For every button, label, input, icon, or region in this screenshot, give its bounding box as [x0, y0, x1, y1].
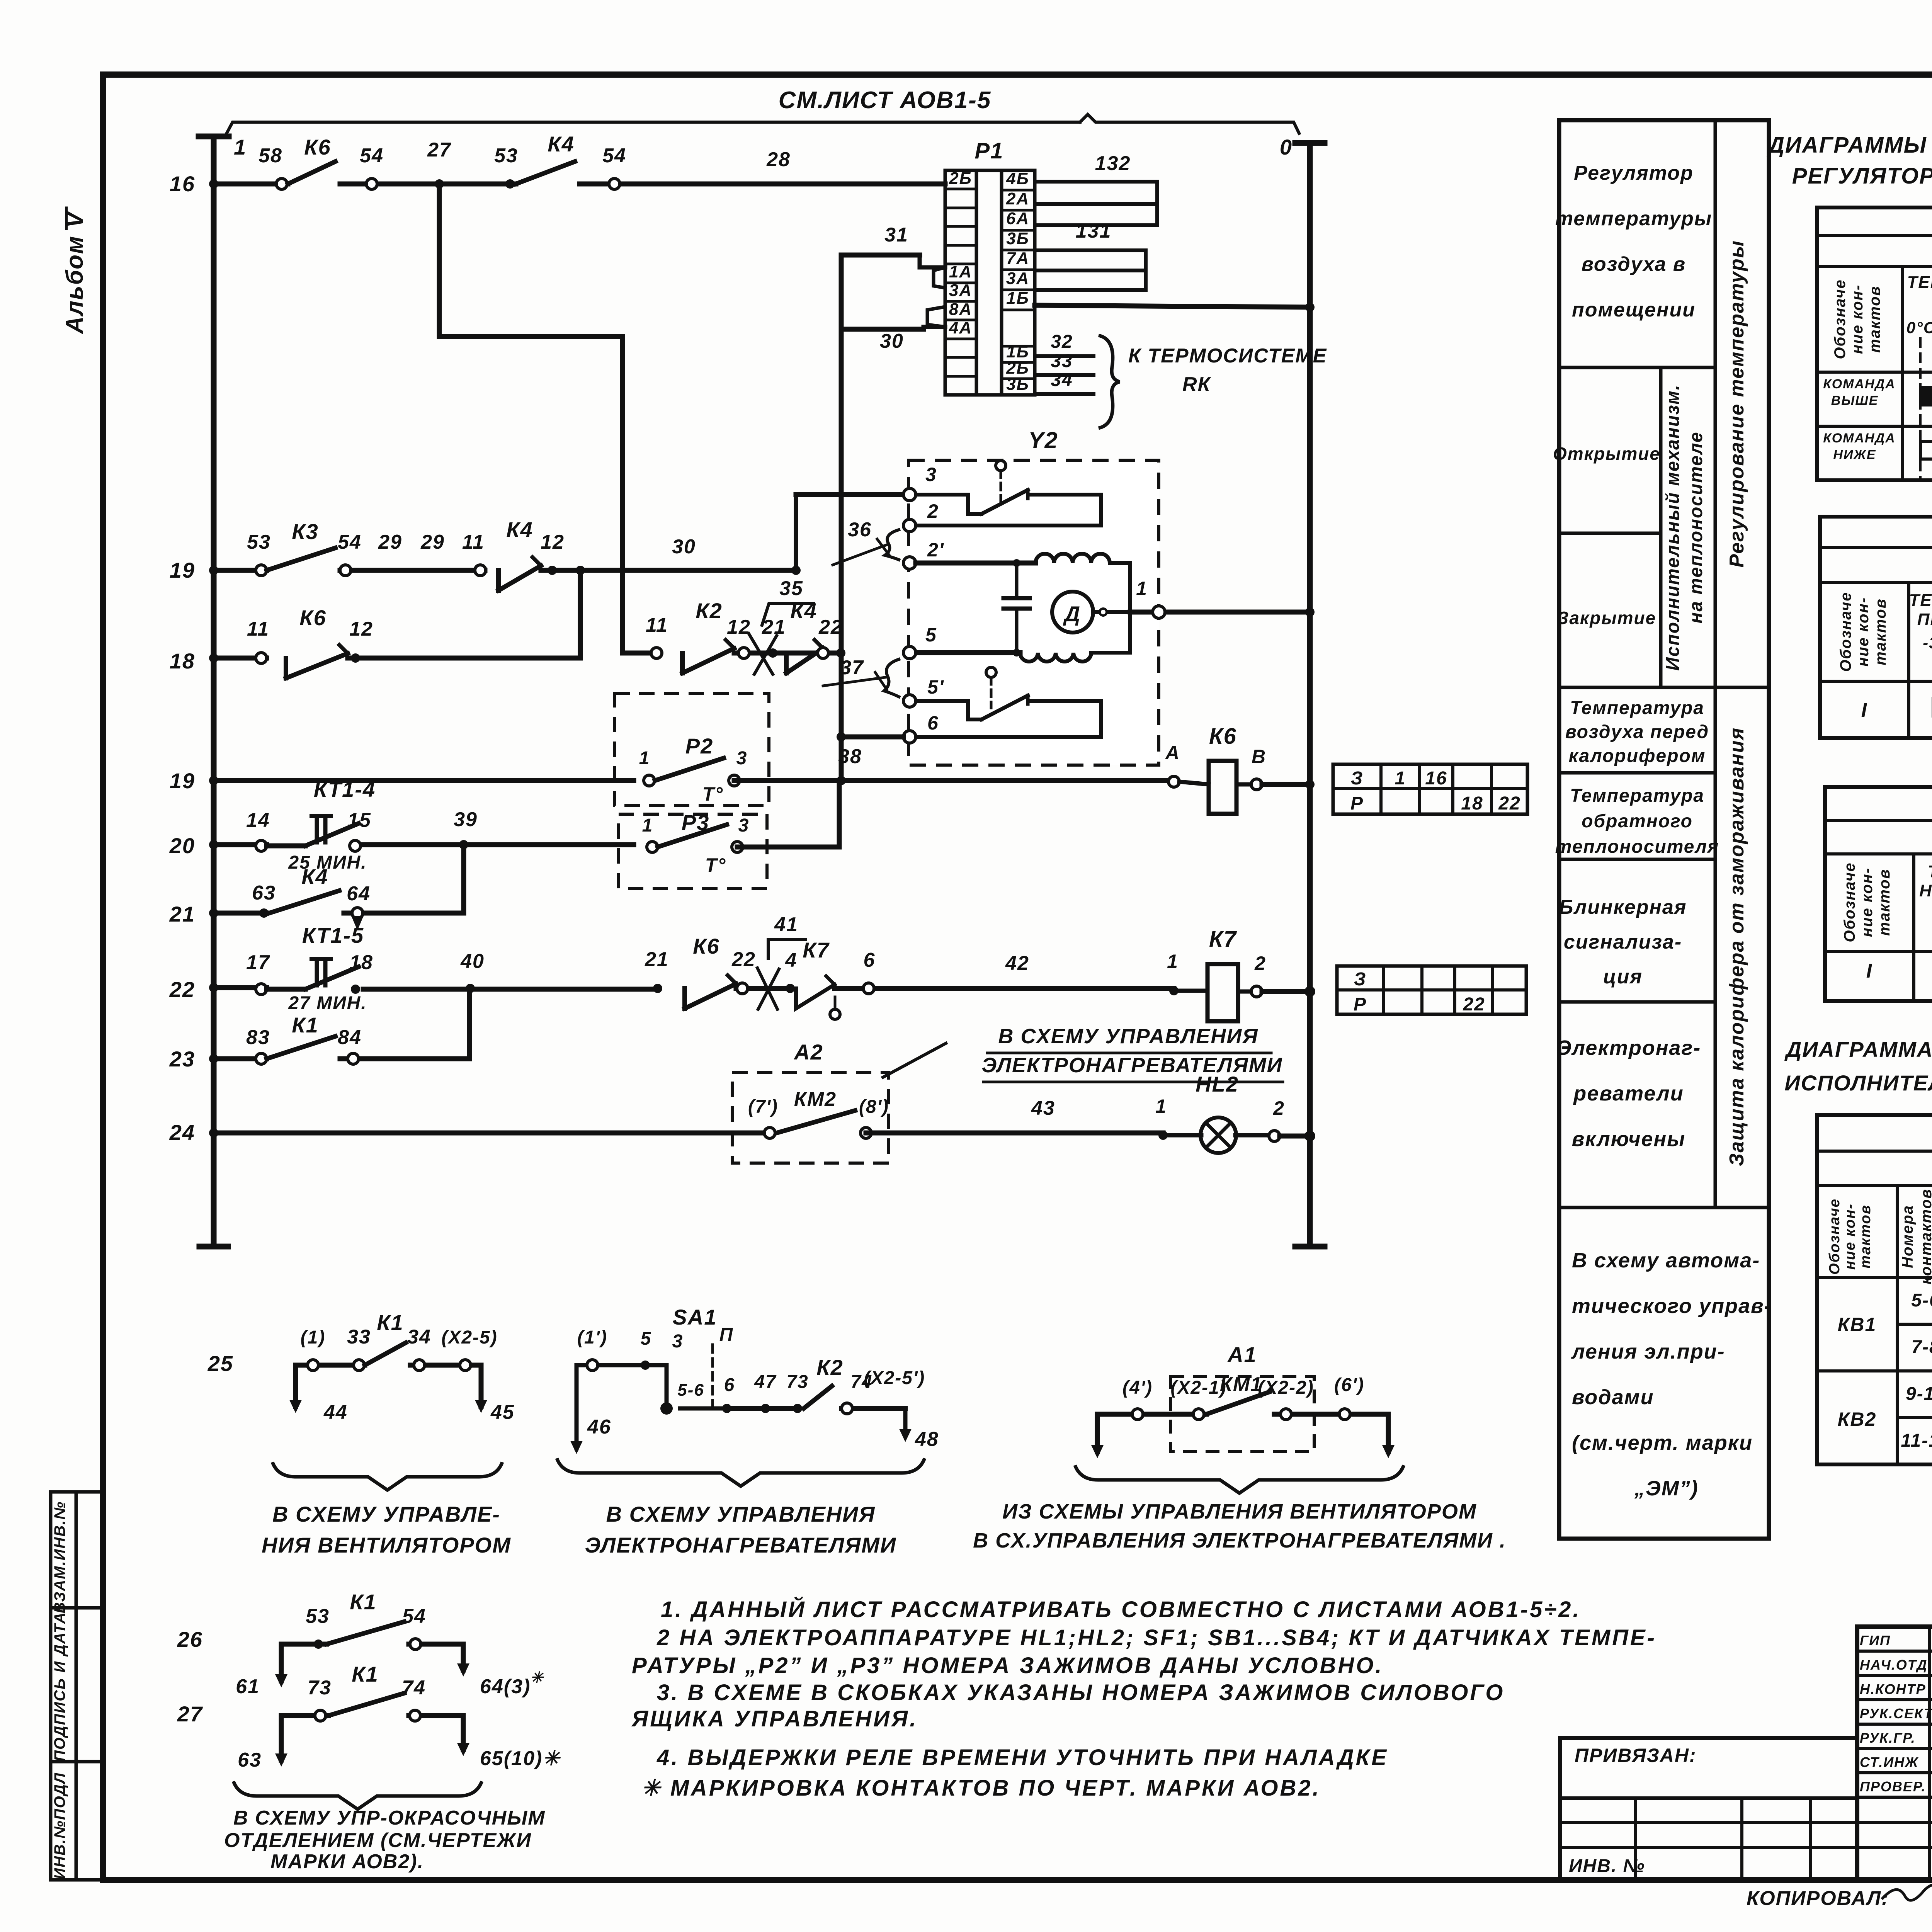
Y2 terminal 1 — [1130, 610, 1310, 615]
svg-text:3. В СХЕМЕ В СКОБКАХ УКАЗАН: 3. В СХЕМЕ В СКОБКАХ УКАЗАНЫ НОМЕРА ЗАЖИ… — [657, 1680, 1505, 1705]
contact K3 53-54 — [256, 565, 267, 576]
svg-text:КМ2: КМ2 — [794, 1088, 837, 1111]
svg-text:48: 48 — [915, 1428, 939, 1451]
svg-text:(6'): (6') — [1334, 1375, 1364, 1395]
svg-text:теплоносителя: теплоносителя — [1555, 837, 1719, 857]
svg-text:МАРКИ АОВ2).: МАРКИ АОВ2). — [270, 1850, 424, 1873]
svg-text:П: П — [719, 1325, 734, 1345]
svg-text:1Б: 1Б — [1006, 289, 1029, 308]
svg-text:ВЫШЕ: ВЫШЕ — [1831, 393, 1879, 408]
svg-text:27 МИН.: 27 МИН. — [288, 993, 367, 1014]
svg-text:Т°: Т° — [705, 854, 726, 876]
svg-text:22: 22 — [818, 616, 843, 638]
svg-text:К ТЕРМОСИСТЕМЕ: К ТЕРМОСИСТЕМЕ — [1128, 345, 1327, 367]
svg-text:33: 33 — [347, 1326, 371, 1348]
svg-text:54: 54 — [402, 1605, 426, 1628]
contact P3 1-3 — [647, 842, 658, 852]
contact KM2 — [764, 1128, 775, 1138]
Y2 terminal 3 — [796, 492, 910, 497]
node 27 junction — [435, 179, 444, 189]
Y2 terminal 2p — [903, 557, 916, 569]
svg-text:ления эл.при-: ления эл.при- — [1571, 1340, 1725, 1363]
time contact KT1-4 14-15 — [256, 840, 267, 851]
svg-text:КВ2: КВ2 — [1838, 1408, 1877, 1430]
svg-text:7-8: 7-8 — [1911, 1337, 1932, 1357]
svg-text:27: 27 — [427, 139, 451, 161]
svg-text:К4: К4 — [790, 599, 817, 623]
svg-text:1: 1 — [1395, 768, 1406, 789]
Y2 motor circuit top winding — [916, 561, 1036, 566]
svg-text:83: 83 — [246, 1026, 270, 1049]
svg-text:16: 16 — [1425, 768, 1447, 789]
svg-text:Температура: Температура — [1570, 786, 1704, 806]
svg-text:К6: К6 — [304, 135, 331, 159]
svg-text:47: 47 — [754, 1372, 777, 1392]
svg-text:40: 40 — [460, 950, 485, 973]
svg-text:контактов: контактов — [1918, 1189, 1932, 1285]
P1 thermo stubs 32 33 34 — [1035, 354, 1094, 358]
svg-text:SA1: SA1 — [673, 1305, 717, 1329]
svg-text:К1: К1 — [350, 1590, 377, 1614]
svg-text:К7: К7 — [1209, 927, 1237, 952]
svg-text:Регулирование температуры: Регулирование температуры — [1726, 240, 1748, 568]
wire riser to row18 contact K2 branch — [620, 337, 625, 653]
contact K4 21-22 break — [768, 648, 777, 658]
wire marking table at K7 — [1337, 966, 1526, 1014]
svg-text:18: 18 — [1461, 793, 1483, 814]
svg-text:20: 20 — [169, 833, 195, 858]
svg-text:З: З — [1351, 768, 1364, 789]
diagram table P1 TE2P3 — [1817, 207, 1932, 480]
svg-text:обратного: обратного — [1582, 811, 1693, 832]
svg-text:(1'): (1') — [577, 1327, 607, 1348]
svg-text:11-12: 11-12 — [1901, 1430, 1932, 1451]
wire 28 to P1 — [580, 182, 945, 187]
P1 left hooks — [934, 267, 945, 288]
svg-text:3Б: 3Б — [1006, 375, 1029, 394]
svg-text:4А: 4А — [949, 318, 972, 337]
svg-text:3А: 3А — [949, 281, 972, 300]
svg-text:ние кон-: ние кон- — [1855, 597, 1872, 667]
svg-text:водами: водами — [1572, 1386, 1654, 1409]
svg-text:НИЯ ВЕНТИЛЯТОРОМ: НИЯ ВЕНТИЛЯТОРОМ — [262, 1533, 511, 1557]
svg-text:тактов: тактов — [1876, 869, 1893, 936]
svg-text:27: 27 — [177, 1702, 203, 1726]
svg-text:18: 18 — [170, 649, 195, 673]
linkage 37 — [884, 659, 900, 697]
svg-text:тактов: тактов — [1857, 1204, 1874, 1269]
svg-text:Температура: Температура — [1570, 698, 1704, 718]
svg-text:В СХ.УПРАВЛЕНИЯ ЭЛЕКТРОНАГРЕВ: В СХ.УПРАВЛЕНИЯ ЭЛЕКТРОНАГРЕВАТЕЛЯМИ . — [973, 1529, 1506, 1552]
svg-text:К4: К4 — [548, 132, 575, 156]
svg-text:11: 11 — [247, 618, 269, 640]
svg-text:ВЗАМ.ИНВ.№: ВЗАМ.ИНВ.№ — [51, 1501, 68, 1613]
svg-text:КВ1: КВ1 — [1838, 1314, 1877, 1335]
svg-text:воздуха в: воздуха в — [1582, 253, 1686, 276]
node 1: left supply rail — [211, 136, 217, 1247]
svg-text:Электронаг-: Электронаг- — [1556, 1036, 1701, 1060]
Y2 terminal 5 — [903, 646, 916, 659]
svg-text:✳ МАРКИРОВКА КОНТАКТОВ ПО: ✳ МАРКИРОВКА КОНТАКТОВ ПО ЧЕРТ. МАРКИ АО… — [641, 1776, 1321, 1801]
svg-text:✳: ✳ — [530, 1669, 544, 1686]
svg-text:5-6: 5-6 — [677, 1381, 704, 1400]
motor D — [1052, 592, 1093, 633]
Y2 terminal 2 — [903, 519, 916, 532]
svg-text:ТЕМПЕРАТУРА ОБРАТ-: ТЕМПЕРАТУРА ОБРАТ- — [1928, 862, 1932, 881]
svg-text:12: 12 — [541, 531, 565, 553]
svg-text:39: 39 — [454, 808, 478, 831]
svg-text:45: 45 — [490, 1401, 515, 1423]
svg-text:84: 84 — [338, 1026, 362, 1049]
svg-text:11: 11 — [646, 614, 668, 636]
diagram table P3 TUDE-2 — [1825, 787, 1932, 1001]
svg-text:ДИАГРАММА РАБОТЫ КОНТАКТОВ: ДИАГРАММА РАБОТЫ КОНТАКТОВ — [1784, 1037, 1932, 1061]
svg-text:24: 24 — [169, 1120, 195, 1145]
svg-text:Р: Р — [1354, 994, 1367, 1015]
svg-text:74: 74 — [402, 1677, 426, 1699]
svg-text:2А: 2А — [1006, 189, 1029, 208]
svg-text:ИЗ СХЕМЫ УПРАВЛЕНИЯ ВЕНТИЛЯТ: ИЗ СХЕМЫ УПРАВЛЕНИЯ ВЕНТИЛЯТОРОМ — [1002, 1500, 1477, 1523]
svg-text:тического управ-: тического управ- — [1572, 1294, 1772, 1318]
svg-text:К7: К7 — [803, 938, 830, 962]
svg-text:34: 34 — [1051, 370, 1073, 390]
junction 39 — [459, 840, 468, 849]
svg-text:К2: К2 — [696, 599, 723, 623]
relay coil K6 — [1168, 776, 1179, 787]
svg-text:Т°: Т° — [702, 783, 724, 805]
svg-text:4Б: 4Б — [1006, 169, 1029, 188]
svg-text:Закрытие: Закрытие — [1557, 608, 1656, 628]
svg-text:К1: К1 — [377, 1310, 404, 1335]
title block — [1857, 1627, 1932, 1880]
svg-text:58: 58 — [259, 145, 282, 167]
svg-text:35: 35 — [779, 577, 803, 600]
svg-text:(7'): (7') — [748, 1097, 778, 1117]
svg-text:(8'): (8') — [859, 1097, 889, 1117]
reference bracket see sheet AOB1-5 — [226, 122, 1080, 134]
svg-text:включены: включены — [1572, 1128, 1685, 1151]
svg-text:I: I — [1861, 699, 1867, 721]
svg-text:ТЕМПЕРАТУРА ВОЗДУХА: ТЕМПЕРАТУРА ВОЗДУХА — [1907, 273, 1932, 292]
svg-text:(Х2-2): (Х2-2) — [1258, 1378, 1314, 1398]
svg-text:СТ.ИНЖ: СТ.ИНЖ — [1860, 1754, 1919, 1770]
svg-text:0: 0 — [1280, 135, 1293, 159]
wire 30 to P1 4A — [841, 327, 923, 332]
svg-text:Регулятор: Регулятор — [1574, 162, 1694, 184]
svg-text:23: 23 — [169, 1047, 195, 1071]
svg-text:А: А — [1165, 742, 1180, 764]
lamp HL2 — [1158, 1131, 1168, 1140]
svg-text:4: 4 — [785, 949, 798, 971]
svg-text:РАТУРЫ „Р2” И „Р3” НОМЕРА ЗАЖ: РАТУРЫ „Р2” И „Р3” НОМЕРА ЗАЖИМОВ ДАНЫ У… — [632, 1653, 1384, 1678]
wire marking table at K6 — [1333, 764, 1527, 814]
svg-text:ция: ция — [1603, 966, 1643, 988]
svg-text:22: 22 — [1463, 994, 1485, 1015]
svg-text:помещении: помещении — [1572, 299, 1696, 321]
svg-text:ЭЛЕКТРОНАГРЕВАТЕЛЯМИ: ЭЛЕКТРОНАГРЕВАТЕЛЯМИ — [981, 1054, 1282, 1077]
svg-text:9-10: 9-10 — [1906, 1384, 1932, 1404]
svg-text:3: 3 — [738, 815, 750, 836]
svg-text:46: 46 — [587, 1416, 611, 1438]
svg-text:5: 5 — [641, 1328, 652, 1349]
svg-text:Обозначе: Обозначе — [1841, 862, 1858, 942]
temperature relay P2 dashed box — [614, 694, 769, 806]
svg-text:0°С: 0°С — [1906, 318, 1932, 337]
svg-text:(Х2-1): (Х2-1) — [1170, 1378, 1226, 1398]
svg-text:КТ1-5: КТ1-5 — [302, 923, 364, 947]
svg-text:КТ1-4: КТ1-4 — [314, 777, 376, 801]
svg-text:22: 22 — [169, 977, 195, 1002]
svg-text:54: 54 — [360, 145, 384, 167]
svg-text:НИЖЕ: НИЖЕ — [1833, 447, 1876, 462]
svg-text:17: 17 — [246, 951, 270, 974]
svg-text:43: 43 — [1031, 1097, 1055, 1119]
svg-text:калорифером: калорифером — [1569, 746, 1706, 766]
svg-text:ДИАГРАММЫ РАБОТЫ КОНТАКТОВ: ДИАГРАММЫ РАБОТЫ КОНТАКТОВ — [1766, 133, 1932, 158]
svg-text:ПЕРЕД КАЛОРИФЕРОМ: ПЕРЕД КАЛОРИФЕРОМ — [1917, 610, 1932, 629]
svg-text:1А: 1А — [949, 262, 972, 281]
svg-text:ние кон-: ние кон- — [1859, 867, 1876, 937]
svg-text:ОТДЕЛЕНИЕМ (СМ.ЧЕРТЕЖИ: ОТДЕЛЕНИЕМ (СМ.ЧЕРТЕЖИ — [224, 1829, 532, 1852]
svg-text:5': 5' — [927, 676, 944, 698]
svg-text:12: 12 — [727, 616, 751, 638]
svg-text:29: 29 — [420, 531, 445, 553]
svg-text:РУК.ГР.: РУК.ГР. — [1860, 1730, 1916, 1746]
wire v3 to terminal 6 — [841, 735, 903, 740]
wire node 27 drop — [437, 184, 442, 337]
svg-text:КОПИРОВАЛ:: КОПИРОВАЛ: — [1747, 1887, 1889, 1910]
svg-text:-30°С: -30°С — [1923, 634, 1932, 652]
contact K4 63-64 — [259, 908, 269, 918]
junction 40 — [466, 984, 475, 993]
svg-text:(1): (1) — [301, 1327, 326, 1348]
svg-text:5: 5 — [925, 624, 937, 646]
svg-text:В: В — [1252, 746, 1266, 767]
svg-text:30: 30 — [672, 536, 696, 558]
svg-text:ИНВ. №: ИНВ. № — [1569, 1856, 1645, 1876]
brace fragment A1 — [1075, 1465, 1404, 1493]
wire P3 to junction 38 — [737, 781, 839, 847]
capacitor — [1015, 563, 1019, 598]
svg-text:1. ДАННЫЙ ЛИСТ РАССМАТРИВАТ: 1. ДАННЫЙ ЛИСТ РАССМАТРИВАТЬ СОВМЕСТНО С… — [661, 1597, 1581, 1622]
row18 branch contacts K2 K4 — [622, 651, 656, 656]
svg-text:К6: К6 — [1209, 724, 1237, 749]
svg-text:ИСПОЛНИТЕЛЬНОГО МЕХАНИЗМА.: ИСПОЛНИТЕЛЬНОГО МЕХАНИЗМА. — [1784, 1071, 1932, 1095]
svg-text:38: 38 — [838, 745, 862, 768]
svg-text:2': 2' — [927, 539, 944, 561]
svg-text:53: 53 — [306, 1605, 330, 1628]
svg-text:1: 1 — [639, 748, 650, 769]
svg-text:8А: 8А — [949, 300, 972, 319]
svg-text:НОГО ТЕПЛОНОСИТЕЛЯ: НОГО ТЕПЛОНОСИТЕЛЯ — [1919, 881, 1932, 900]
svg-text:37: 37 — [840, 656, 864, 679]
contact K6 58-54 — [276, 179, 287, 189]
diagram table Y1 MEO — [1817, 1115, 1932, 1464]
svg-text:33: 33 — [1051, 351, 1073, 371]
contact K1 83-84 — [256, 1053, 267, 1064]
wire P1 1B to rail 0 — [1035, 305, 1310, 307]
svg-text:6: 6 — [927, 712, 939, 734]
svg-text:Д: Д — [1063, 602, 1081, 626]
svg-text:Исполнительный механизм.: Исполнительный механизм. — [1663, 384, 1683, 671]
svg-text:1: 1 — [1167, 951, 1179, 972]
svg-text:В СХЕМУ УПР-ОКРАСОЧНЫМ: В СХЕМУ УПР-ОКРАСОЧНЫМ — [233, 1807, 546, 1829]
svg-text:температуры: температуры — [1555, 207, 1712, 230]
svg-text:2 НА ЭЛЕКТРОАППАРАТУРЕ HL1;HL: 2 НА ЭЛЕКТРОАППАРАТУРЕ HL1;HL2; SF1; SB1… — [656, 1625, 1656, 1650]
svg-text:44: 44 — [323, 1401, 348, 1423]
svg-text:К1: К1 — [292, 1013, 319, 1037]
svg-text:42: 42 — [1005, 952, 1029, 975]
svg-text:12: 12 — [349, 618, 373, 640]
wire 31 to P1 1A — [841, 253, 920, 258]
Y2 terminal 5p — [903, 695, 916, 707]
svg-text:В СХЕМУ УПРАВЛЕНИЯ: В СХЕМУ УПРАВЛЕНИЯ — [606, 1502, 876, 1526]
svg-text:В СХЕМУ УПРАВЛЕНИЯ: В СХЕМУ УПРАВЛЕНИЯ — [998, 1025, 1258, 1048]
svg-text:31: 31 — [884, 224, 908, 246]
svg-text:(Х2-5): (Х2-5) — [441, 1327, 497, 1348]
svg-text:К4: К4 — [301, 864, 328, 889]
svg-text:32: 32 — [1051, 332, 1073, 352]
svg-text:К3: К3 — [292, 519, 319, 544]
svg-text:Защита калорифера от замораж: Защита калорифера от замораживания — [1726, 727, 1748, 1166]
svg-text:6: 6 — [864, 949, 876, 971]
svg-text:В схему автома-: В схему автома- — [1572, 1249, 1760, 1272]
svg-text:25: 25 — [207, 1351, 233, 1376]
svg-text:К4: К4 — [506, 517, 533, 542]
svg-text:РЕГУЛЯТОРОВ ТЕМПЕРАТУРЫ.: РЕГУЛЯТОРОВ ТЕМПЕРАТУРЫ. — [1792, 163, 1932, 189]
svg-text:Н.КОНТР: Н.КОНТР — [1860, 1681, 1926, 1697]
svg-text:3: 3 — [672, 1331, 684, 1352]
linkage 36 — [885, 529, 900, 560]
svg-text:тактов: тактов — [1866, 286, 1883, 353]
linkage mark 35 — [749, 634, 773, 674]
P1 stubs 132 — [1035, 182, 1157, 225]
diagram table P2 TUDE-1 — [1820, 517, 1932, 738]
svg-text:54: 54 — [602, 145, 626, 167]
svg-text:1: 1 — [1155, 1095, 1167, 1117]
brace fragment 25 — [272, 1462, 502, 1490]
svg-text:К6: К6 — [693, 934, 720, 958]
relay coil K7 — [1169, 986, 1179, 995]
svg-text:2: 2 — [927, 500, 939, 522]
svg-text:53: 53 — [247, 531, 271, 553]
svg-text:73: 73 — [308, 1677, 332, 1699]
svg-text:64: 64 — [347, 883, 371, 905]
svg-text:6А: 6А — [1006, 209, 1029, 228]
svg-text:2: 2 — [1273, 1097, 1285, 1119]
svg-text:А1: А1 — [1227, 1342, 1257, 1367]
arrow into heater scheme note — [883, 1043, 946, 1077]
svg-text:З: З — [1354, 969, 1367, 990]
svg-text:ние кон-: ние кон- — [1849, 284, 1866, 354]
svg-text:К1: К1 — [352, 1662, 379, 1686]
svg-text:ние кон-: ние кон- — [1842, 1203, 1858, 1270]
svg-text:ГИП: ГИП — [1860, 1633, 1891, 1648]
svg-text:ЯЩИКА УПРАВЛЕНИЯ.: ЯЩИКА УПРАВЛЕНИЯ. — [631, 1706, 918, 1731]
svg-text:НАЧ.ОТД: НАЧ.ОТД — [1860, 1657, 1928, 1673]
svg-text:ТЕМПЕРАТУРА ВОЗДУХА: ТЕМПЕРАТУРА ВОЗДУХА — [1909, 591, 1932, 610]
svg-text:19: 19 — [170, 769, 195, 793]
svg-text:5-6: 5-6 — [1911, 1290, 1932, 1311]
heater control box A2 dashed — [732, 1072, 889, 1163]
svg-text:1: 1 — [1136, 578, 1148, 599]
junction row19/18 riser — [576, 566, 585, 575]
svg-text:53: 53 — [494, 145, 518, 167]
svg-text:К6: К6 — [299, 605, 327, 630]
svg-text:А2: А2 — [793, 1040, 823, 1064]
svg-text:Y2: Y2 — [1028, 427, 1058, 453]
svg-text:7А: 7А — [1006, 249, 1029, 268]
function description table — [1559, 120, 1769, 1539]
svg-text:36: 36 — [848, 519, 872, 541]
pривязан box — [1560, 1738, 1857, 1798]
svg-text:Р2: Р2 — [685, 734, 714, 758]
Y2 limit switch KB1 top — [916, 495, 981, 514]
svg-text:61: 61 — [236, 1675, 260, 1698]
svg-text:ПРОВЕР.: ПРОВЕР. — [1860, 1779, 1926, 1794]
svg-text:на теплоносителе: на теплоносителе — [1686, 431, 1706, 623]
linkage mark 41 — [757, 968, 777, 1009]
svg-text:3А: 3А — [1006, 269, 1029, 288]
svg-text:132: 132 — [1095, 152, 1131, 175]
svg-text:(см.черт. марки: (см.черт. марки — [1572, 1431, 1753, 1454]
svg-text:29: 29 — [378, 531, 402, 553]
svg-text:54: 54 — [338, 531, 362, 553]
wire horizontal to v-riser — [439, 334, 622, 339]
svg-text:Обозначе: Обозначе — [1837, 592, 1854, 672]
svg-text:реватели: реватели — [1573, 1082, 1684, 1105]
riser row23 to junction 40 — [467, 988, 472, 1059]
svg-text:15: 15 — [347, 809, 371, 832]
svg-text:тактов: тактов — [1872, 598, 1889, 665]
svg-text:В СХЕМУ УПРАВЛЕ-: В СХЕМУ УПРАВЛЕ- — [272, 1502, 500, 1526]
svg-text:34: 34 — [407, 1326, 431, 1348]
wire 30 branch vertical — [839, 255, 844, 777]
svg-text:11: 11 — [462, 531, 485, 553]
svg-text:сигнализа-: сигнализа- — [1564, 931, 1682, 953]
contact K4 53-54 — [505, 179, 515, 189]
svg-text:СМ.ЛИСТ АОВ1-5: СМ.ЛИСТ АОВ1-5 — [779, 87, 992, 114]
P1 stubs 131 — [1035, 250, 1146, 290]
contact P2 1-3 — [644, 775, 655, 786]
svg-text:ЭЛЕКТРОНАГРЕВАТЕЛЯМИ: ЭЛЕКТРОНАГРЕВАТЕЛЯМИ — [585, 1533, 896, 1557]
svg-text:22: 22 — [1498, 793, 1520, 814]
svg-text:Обозначе: Обозначе — [1827, 1198, 1843, 1275]
node 0: right supply rail — [1307, 143, 1313, 1247]
contact K6 11-12 break — [256, 653, 267, 663]
svg-text:21: 21 — [645, 948, 669, 971]
svg-text:19: 19 — [170, 558, 195, 582]
svg-text:131: 131 — [1076, 220, 1112, 242]
svg-text:Открытие: Открытие — [1553, 444, 1660, 464]
svg-text:22: 22 — [731, 948, 756, 971]
svg-text:21: 21 — [762, 616, 786, 638]
svg-text:(Х2-5'): (Х2-5') — [864, 1368, 925, 1388]
svg-text:63: 63 — [252, 882, 276, 904]
svg-text:КМ1: КМ1 — [1220, 1373, 1262, 1396]
left margin stamp strip — [49, 1492, 53, 1880]
svg-text:2Б: 2Б — [949, 169, 972, 188]
svg-text:21: 21 — [169, 902, 195, 926]
Y2 limit switch KB2 bottom — [916, 701, 981, 719]
svg-text:3Б: 3Б — [1006, 229, 1029, 248]
svg-text:Блинкерная: Блинкерная — [1559, 896, 1687, 918]
svg-text:воздуха перед: воздуха перед — [1565, 722, 1709, 742]
svg-text:КОМАНДА: КОМАНДА — [1823, 431, 1895, 446]
svg-text:Р1: Р1 — [975, 138, 1004, 163]
svg-text:РУК.СЕКТ: РУК.СЕКТ — [1860, 1706, 1932, 1721]
svg-text:65(10)✳: 65(10)✳ — [480, 1747, 561, 1770]
